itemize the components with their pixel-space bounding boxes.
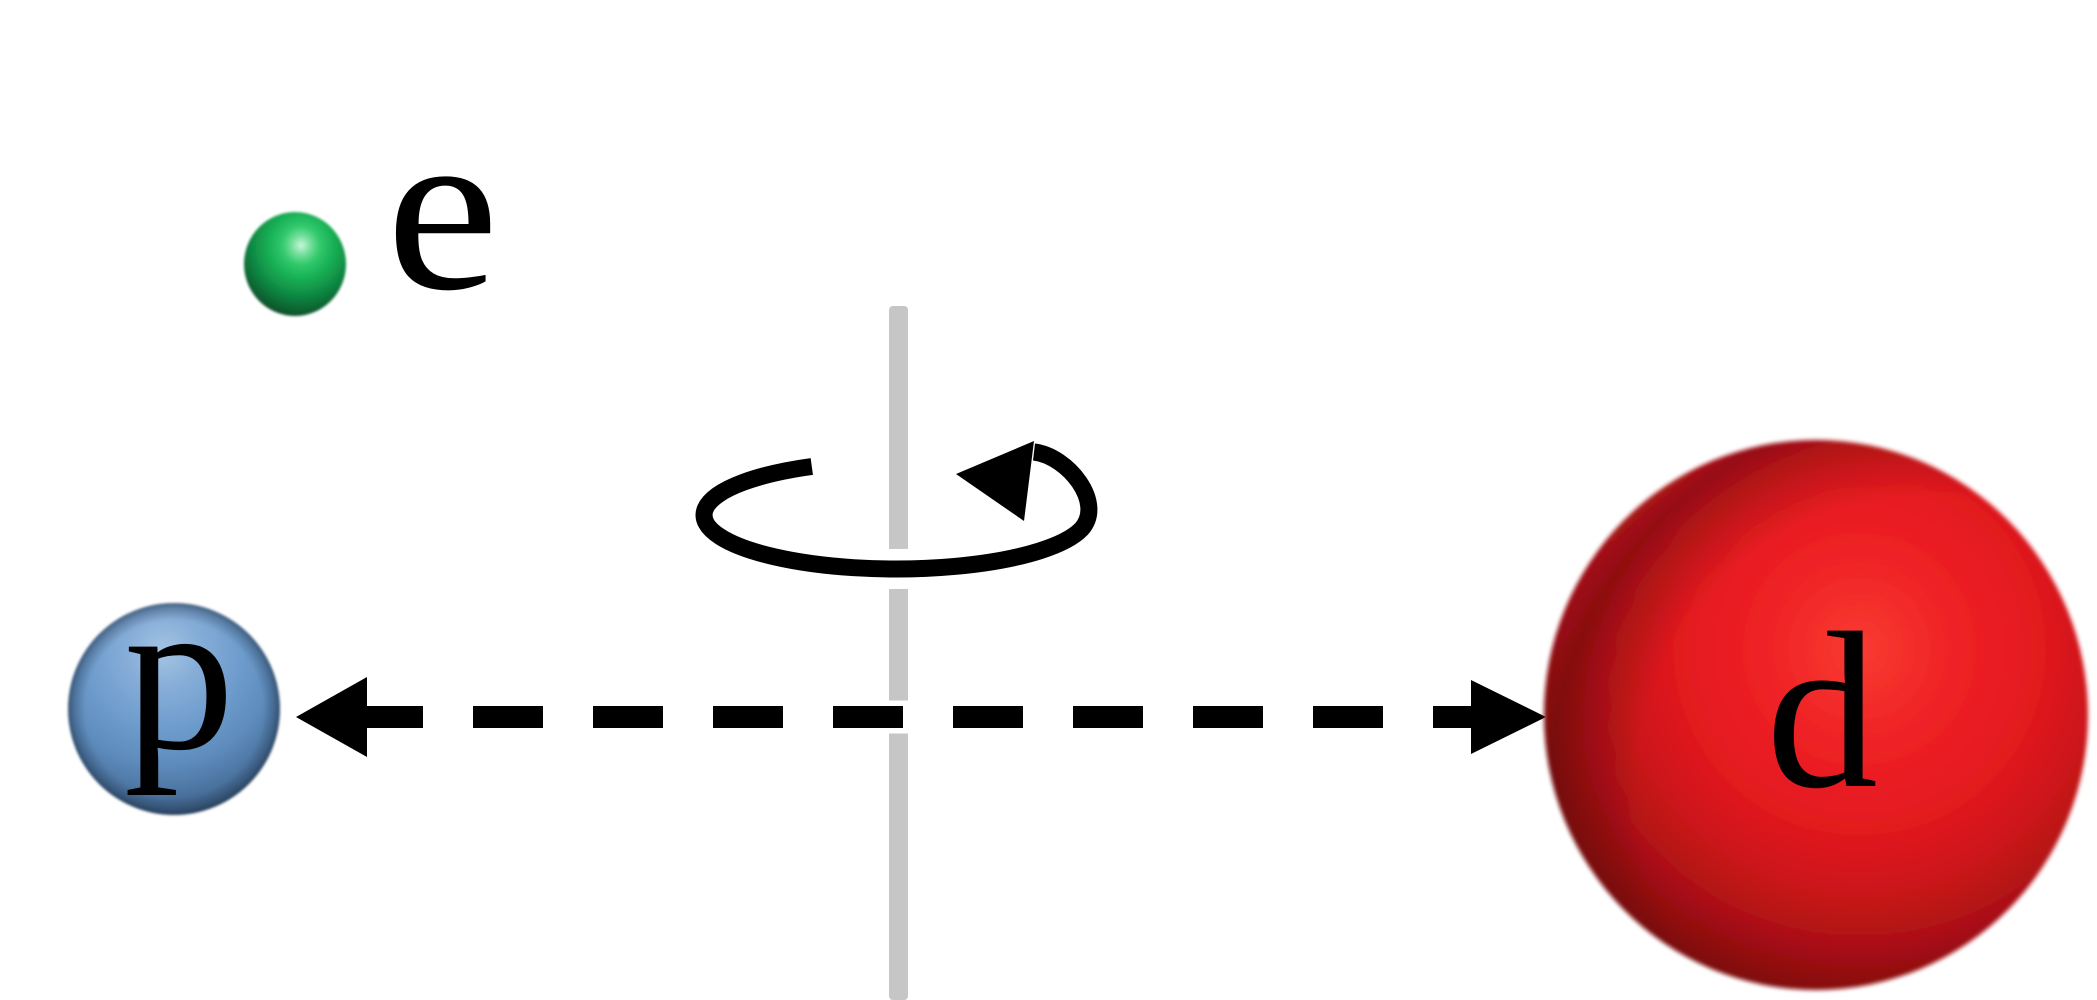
svg-text:e: e [386, 78, 499, 340]
svg-text:d: d [1766, 587, 1878, 835]
rotation arrow: white halo under elliptical arc [704, 452, 1089, 569]
svg-text:p: p [124, 551, 235, 796]
rotation axis (gray vertical line) [889, 306, 908, 1000]
electron sphere (green) [244, 212, 346, 316]
deuteron sphere (red) [1544, 440, 2088, 990]
arrowhead right (toward d) [1471, 680, 1546, 754]
rotation arrow: arrowhead [956, 441, 1034, 521]
wire: dashed separation arrow shaft [353, 706, 1500, 728]
arrowhead left (toward p) [296, 677, 367, 757]
wire: white halo under dashed separation arrow [353, 701, 1546, 734]
deuteron top-left shading crescent [1544, 440, 2088, 990]
rotation arrow: elliptical arc with curled end [704, 452, 1089, 569]
proton sphere (blue) [68, 603, 280, 815]
